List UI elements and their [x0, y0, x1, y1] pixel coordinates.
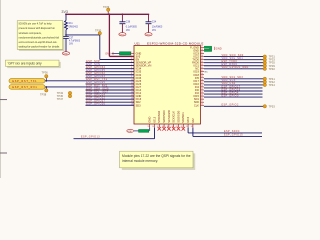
- note box N2 (GPI inputs only): [5, 60, 60, 68]
- wire ESP_RST_TX1: [45, 78, 134, 81]
- no-connect NC pin 32: [205, 72, 209, 74]
- wire EN vertical drop: [100, 35, 134, 60]
- svg-text:TP47: TP47: [57, 97, 64, 101]
- wire ESP_SVN: [86, 63, 135, 66]
- wire ESP_GPIO26: [86, 103, 135, 106]
- svg-text:windows computers,: windows computers,: [19, 31, 42, 35]
- svg-text:33: 33: [201, 64, 203, 66]
- svg-text:randomnerdtutorials.com/solved: randomnerdtutorials.com/solved-fail: [19, 35, 60, 39]
- svg-text:waiting-for-packet-header for: waiting-for-packet-header for details: [19, 45, 60, 49]
- wire ESP_RXD0: [204, 63, 275, 68]
- svg-text:U11: U11: [135, 41, 141, 45]
- wire ESP_GPIO12: [86, 96, 135, 99]
- wire ESP_GPIO2 with TP53: [204, 104, 275, 109]
- svg-text:Module pins 17-22 are the QSPI: Module pins 17-22 are the QSPI signals f…: [122, 154, 191, 158]
- svg-text:SCK/CLK: SCK/CLK: [172, 111, 176, 123]
- svg-text:36: 36: [201, 55, 203, 57]
- svg-text:3: 3: [131, 58, 132, 60]
- svg-text:GND: GND: [146, 34, 151, 36]
- svg-text:NC: NC: [205, 72, 209, 74]
- wire 3V3 rail: [65, 13, 149, 15]
- sheet border left edge: [0, 0, 7, 178]
- wire ESP_GPIO34: [86, 66, 135, 69]
- svg-text:C38: C38: [126, 22, 131, 24]
- wire ESP_GPIO14: [86, 93, 135, 96]
- svg-text:SHD/SD2: SHD/SD2: [157, 110, 161, 122]
- wire ESP_GPIO15: [193, 128, 262, 137]
- svg-text:GND: GND: [127, 131, 132, 133]
- svg-text:3V3: 3V3: [61, 10, 68, 14]
- wire VDD_CS0: [204, 82, 275, 87]
- svg-text:34: 34: [201, 61, 203, 63]
- wire ESP_GPIO35: [86, 69, 135, 72]
- svg-text:TP36: TP36: [42, 70, 49, 74]
- svg-text:27: 27: [201, 82, 203, 84]
- ground symbol under C34: [145, 33, 152, 37]
- capacitor C34: [146, 14, 163, 32]
- svg-text:35: 35: [201, 58, 203, 60]
- wire EN-RC node horizontal: [66, 34, 100, 36]
- svg-text:ESP_GPIO0: ESP_GPIO0: [222, 94, 239, 97]
- wire ESP_GPIO13: [74, 128, 155, 139]
- wire ESP_TXD0: [204, 60, 275, 65]
- test point TP45: [57, 94, 72, 98]
- svg-text:SCS/CMD: SCS/CMD: [167, 110, 171, 123]
- resistor R11 (0R0 0402): [65, 14, 79, 29]
- note box N1 (top-left usage note): [17, 21, 64, 51]
- wire ESP_SD0C: [188, 128, 262, 134]
- wire 3V3 feed to module pin 2: [109, 14, 134, 56]
- wire ESP_RST_RX1: [45, 84, 134, 87]
- ground label right GND: [215, 47, 222, 51]
- svg-text:4.7uF0603: 4.7uF0603: [69, 40, 81, 42]
- svg-text:TP44: TP44: [269, 83, 276, 87]
- wire ESP_GPIO25: [86, 81, 135, 84]
- svg-text:39: 39: [201, 46, 203, 48]
- module left pin stubs and names: [131, 51, 152, 107]
- svg-text:20: 20: [201, 104, 203, 106]
- svg-text:0.1uF0805: 0.1uF0805: [126, 27, 138, 29]
- svg-text:32: 32: [201, 67, 203, 69]
- svg-text:TP40: TP40: [269, 67, 276, 71]
- wire VDD_SDO_SD0: [204, 54, 275, 59]
- svg-text:25: 25: [201, 88, 203, 90]
- svg-text:ESP_GPIO26: ESP_GPIO26: [86, 103, 105, 106]
- capacitor C37 4.7uF: [63, 37, 81, 46]
- wire ESP_GPIO16: [204, 88, 263, 91]
- svg-text:SD3: SD3: [136, 103, 142, 107]
- svg-text:15: 15: [148, 126, 150, 128]
- svg-text:16V: 16V: [152, 30, 157, 32]
- svg-text:IO13: IO13: [152, 116, 156, 122]
- svg-text:21: 21: [201, 101, 203, 103]
- wire ESP_SVP: [86, 60, 135, 63]
- svg-text:IO2: IO2: [191, 118, 195, 123]
- svg-text:VDD_GPIO21_MD1: VDD_GPIO21_MD1: [222, 66, 250, 69]
- wire VDD_GPIO21_MD1: [204, 66, 275, 71]
- svg-text:0R00402: 0R00402: [69, 26, 79, 28]
- svg-text:SWP/SD3: SWP/SD3: [162, 110, 166, 123]
- svg-text:prevent issues with Espressif: prevent issues with Espressif on: [19, 26, 56, 30]
- wire ESP_GPIO0: [204, 94, 263, 97]
- module right pin stubs and names: [190, 45, 204, 107]
- svg-text:38: 38: [201, 49, 203, 51]
- svg-text:ESP_GPIO2: ESP_GPIO2: [222, 104, 239, 107]
- module bottom pin stubs and names: [148, 110, 195, 128]
- svg-text:29: 29: [201, 76, 203, 78]
- svg-text:GND: GND: [216, 47, 222, 51]
- svg-text:GND: GND: [120, 34, 125, 36]
- svg-text:31: 31: [201, 70, 203, 72]
- svg-text:2: 2: [131, 55, 132, 57]
- test point TP43: [57, 91, 72, 95]
- port label ESP_RST_RX1: [9, 85, 45, 89]
- wire VDD_SCK: [204, 79, 275, 84]
- wire ESP_GPIO32: [86, 72, 135, 75]
- svg-text:22: 22: [201, 98, 203, 100]
- test point TP36: [42, 70, 49, 81]
- wire ESP_SDA_IO26: [86, 87, 135, 90]
- svg-text:GND: GND: [105, 52, 111, 55]
- svg-text:GND: GND: [63, 53, 68, 55]
- wire bottom GND pin: [149, 128, 151, 131]
- wire ESP_SCL_IO27: [86, 90, 135, 93]
- svg-text:16: 16: [152, 126, 154, 128]
- net-tie right P_GND/GND bracket: [204, 46, 212, 51]
- svg-text:1: 1: [131, 52, 132, 54]
- IC U11 ESP32-WROOM-32D-CD MODULE body: [134, 41, 204, 124]
- capacitor C38: [119, 14, 137, 32]
- no-connect X marks on QSPI pins 17-22: [158, 127, 186, 131]
- svg-text:ESP_RST_RX1: ESP_RST_RX1: [12, 86, 37, 89]
- wire VDD_SD1_SD3: [204, 76, 275, 81]
- test point TP29: [103, 5, 110, 14]
- test point TP30: [95, 29, 102, 35]
- test point TP38: [40, 86, 48, 96]
- svg-text:CLK: CLK: [194, 103, 199, 107]
- svg-text:R11: R11: [69, 23, 74, 25]
- svg-text:26: 26: [201, 85, 203, 87]
- port label ESP_RST_TX1: [9, 79, 45, 83]
- svg-text:24: 24: [201, 91, 203, 93]
- svg-text:C37: C37: [69, 37, 74, 39]
- svg-text:IO15: IO15: [186, 116, 190, 122]
- svg-text:ed-to-connect-to-esp32-timed-o: ed-to-connect-to-esp32-timed-out-: [19, 40, 58, 44]
- svg-text:C34: C34: [152, 22, 157, 24]
- svg-text:TP53: TP53: [269, 104, 276, 108]
- ground symbol under C37: [62, 52, 69, 56]
- svg-text:SDO/SD0: SDO/SD0: [176, 110, 180, 123]
- svg-text:'GPI' xxx are inputs only: 'GPI' xxx are inputs only: [8, 62, 42, 66]
- svg-text:10uF0805: 10uF0805: [152, 27, 163, 29]
- net-tie bottom GND: [134, 130, 149, 133]
- test point TP47 label: [57, 97, 64, 101]
- svg-text:23: 23: [201, 95, 203, 97]
- svg-text:TP38: TP38: [40, 92, 47, 96]
- wire C37 to ground: [65, 39, 67, 52]
- svg-text:ESP_RST_TX1: ESP_RST_TX1: [12, 80, 37, 83]
- svg-text:ESP32-WROOM-32D-CD MODULE: ESP32-WROOM-32D-CD MODULE: [147, 41, 204, 45]
- note box N3 (QSPI pins note): [120, 151, 196, 170]
- svg-text:24: 24: [191, 126, 193, 128]
- wire R11 to C37 junction: [65, 30, 67, 37]
- svg-text:IO0-EN pin use 4.7uF to help: IO0-EN pin use 4.7uF to help: [19, 22, 53, 26]
- svg-text:28: 28: [201, 79, 203, 81]
- svg-text:16V: 16V: [69, 43, 74, 45]
- wire ESP_GPIO17: [204, 85, 263, 88]
- wire VDD_SDL_SD1: [204, 57, 275, 62]
- svg-text:16V: 16V: [126, 30, 131, 32]
- ground symbol bottom-left: [127, 129, 134, 133]
- wire ESP_GPIO4: [204, 91, 263, 94]
- svg-text:ESP_GPIO15: ESP_GPIO15: [224, 134, 243, 137]
- svg-text:37: 37: [201, 52, 203, 54]
- power net 3V3 label: [61, 10, 68, 14]
- net-tie left GND to module pin 1: [105, 52, 130, 56]
- svg-text:23: 23: [186, 126, 188, 128]
- ground symbol under C38: [119, 33, 126, 37]
- svg-text:GND: GND: [148, 117, 152, 123]
- svg-text:30: 30: [201, 73, 203, 75]
- wire ESP_GPIO27: [86, 100, 135, 103]
- svg-text:internal module memory.: internal module memory.: [122, 159, 158, 163]
- svg-text:ESP_GPIO13: ESP_GPIO13: [81, 136, 100, 139]
- svg-text:SDI/SD1: SDI/SD1: [181, 112, 185, 123]
- wire ESP_GPIO33: [86, 75, 135, 78]
